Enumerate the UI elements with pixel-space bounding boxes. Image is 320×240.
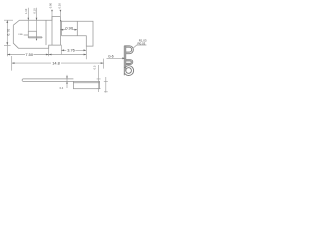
svg-text:0.90: 0.90 bbox=[49, 2, 53, 8]
svg-text:7.50: 7.50 bbox=[25, 52, 33, 57]
svg-text:0.4: 0.4 bbox=[60, 86, 64, 90]
svg-text:3.76: 3.76 bbox=[67, 48, 75, 53]
svg-text:0.5: 0.5 bbox=[93, 65, 97, 69]
svg-text:0.10: 0.10 bbox=[32, 8, 36, 14]
svg-text:0.90: 0.90 bbox=[65, 25, 73, 30]
svg-text:14.8: 14.8 bbox=[52, 60, 60, 65]
svg-text:1.10: 1.10 bbox=[24, 8, 28, 14]
svg-text:6.70: 6.70 bbox=[7, 29, 11, 36]
svg-text:G-6: G-6 bbox=[108, 54, 114, 58]
svg-text:0.30: 0.30 bbox=[58, 3, 62, 9]
